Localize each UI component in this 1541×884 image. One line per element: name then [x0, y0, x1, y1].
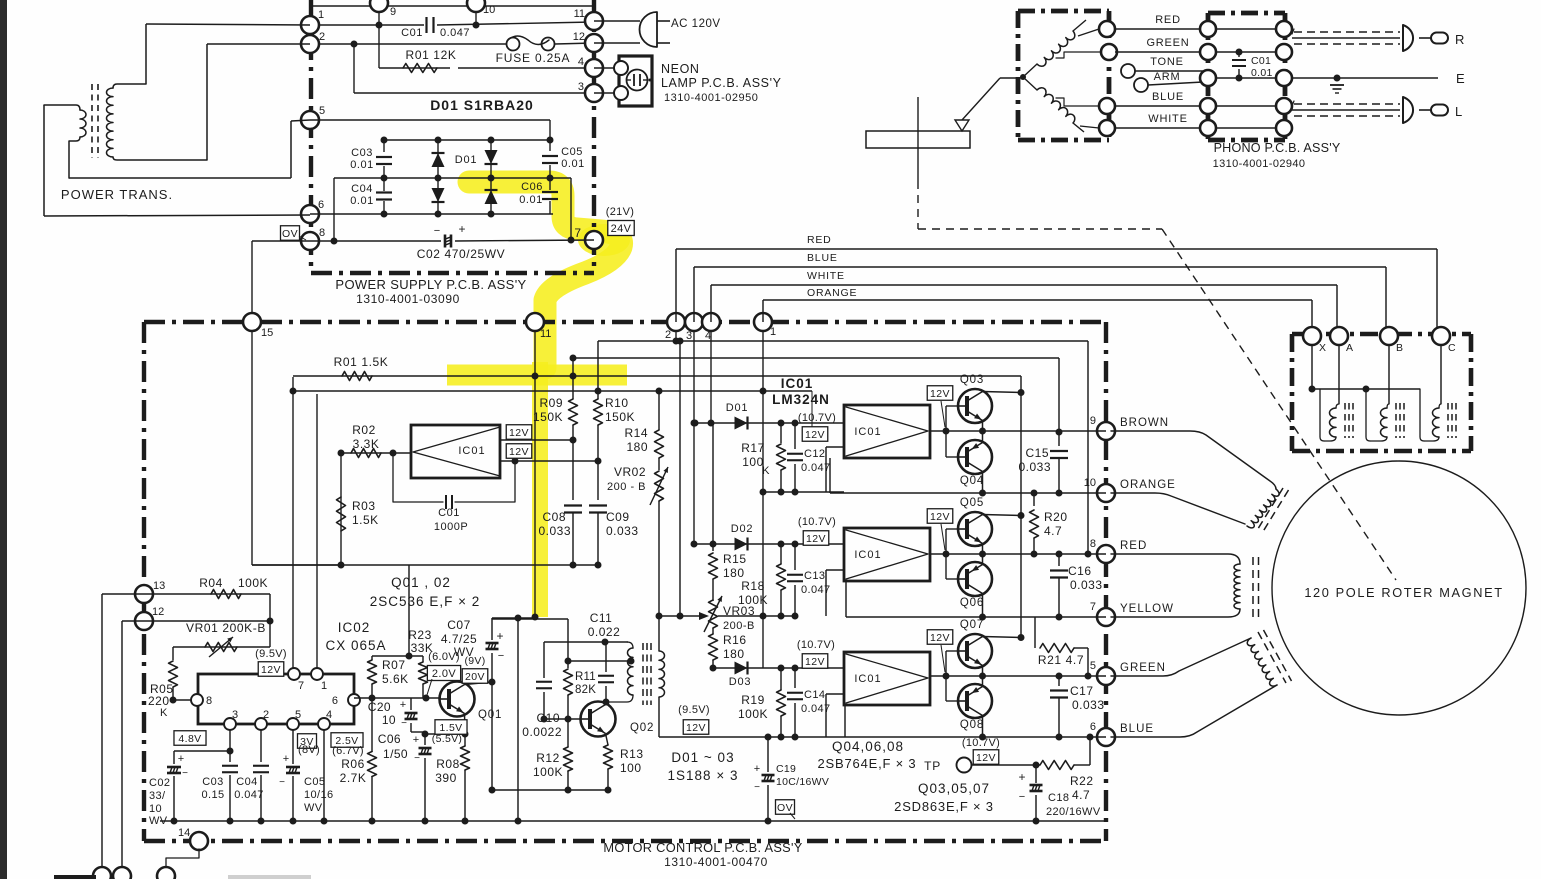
svg-text:0.15: 0.15: [201, 789, 224, 801]
svg-text:R21 4.7: R21 4.7: [1038, 653, 1084, 667]
svg-text:LAMP P.C.B. ASS'Y: LAMP P.C.B. ASS'Y: [661, 76, 782, 90]
svg-text:Q08: Q08: [960, 719, 984, 731]
svg-text:GREEN: GREEN: [1146, 37, 1189, 49]
svg-text:C16: C16: [1068, 564, 1092, 578]
svg-text:0.01: 0.01: [350, 195, 373, 207]
svg-text:82K: 82K: [575, 684, 596, 696]
svg-text:C19: C19: [776, 763, 796, 775]
svg-text:C15: C15: [1025, 446, 1049, 460]
svg-text:2SC536 E,F × 2: 2SC536 E,F × 2: [370, 594, 480, 609]
svg-text:POWER SUPPLY P.C.B. ASS'Y: POWER SUPPLY P.C.B. ASS'Y: [335, 277, 526, 292]
svg-text:−: −: [414, 753, 420, 764]
svg-text:9: 9: [1090, 415, 1096, 427]
svg-text:C05: C05: [561, 146, 583, 158]
svg-text:0.033: 0.033: [1070, 578, 1103, 592]
svg-text:0.01: 0.01: [519, 194, 542, 206]
svg-text:8: 8: [206, 695, 212, 707]
svg-text:4.7: 4.7: [1044, 524, 1062, 538]
svg-text:R10: R10: [605, 396, 629, 410]
svg-text:Q05: Q05: [960, 497, 984, 509]
svg-text:4.7: 4.7: [1072, 788, 1090, 802]
svg-text:14: 14: [178, 827, 190, 839]
svg-text:100K: 100K: [533, 765, 563, 779]
svg-text:−: −: [754, 782, 760, 793]
svg-text:0.01: 0.01: [561, 158, 584, 170]
svg-text:0.033: 0.033: [1018, 460, 1051, 474]
svg-text:4: 4: [578, 56, 584, 68]
svg-text:100: 100: [620, 761, 642, 775]
svg-text:R: R: [1455, 32, 1464, 47]
svg-text:IC01: IC01: [781, 376, 814, 391]
svg-text:−: −: [1019, 791, 1025, 803]
svg-text:13: 13: [153, 580, 165, 592]
svg-text:1310-4001-00470: 1310-4001-00470: [664, 855, 768, 869]
svg-text:2: 2: [263, 709, 269, 721]
svg-text:+: +: [283, 753, 289, 765]
svg-text:R20: R20: [1044, 510, 1068, 524]
svg-text:BROWN: BROWN: [1120, 417, 1169, 429]
svg-text:PHONO P.C.B. ASS'Y: PHONO P.C.B. ASS'Y: [1214, 141, 1341, 155]
svg-text:0.0022: 0.0022: [522, 725, 562, 739]
svg-text:C13: C13: [804, 570, 825, 582]
svg-text:8: 8: [1090, 538, 1096, 550]
svg-text:10: 10: [382, 713, 396, 727]
svg-text:R23: R23: [408, 628, 432, 642]
svg-text:1: 1: [318, 9, 324, 21]
svg-text:WV: WV: [149, 815, 168, 827]
svg-text:2SB764E,F × 3: 2SB764E,F × 3: [818, 756, 917, 771]
svg-text:D02: D02: [731, 523, 754, 535]
svg-text:ARM: ARM: [1154, 71, 1181, 83]
svg-text:C04: C04: [351, 183, 373, 195]
svg-text:R01 12K: R01 12K: [406, 48, 457, 62]
svg-text:−: −: [279, 777, 285, 788]
svg-text:1310-4001-02940: 1310-4001-02940: [1213, 158, 1306, 170]
svg-text:R12: R12: [536, 751, 560, 765]
svg-text:WHITE: WHITE: [807, 270, 845, 282]
svg-text:VR01 200K-B: VR01 200K-B: [186, 621, 266, 635]
svg-text:0.022: 0.022: [588, 625, 621, 639]
svg-text:VR02: VR02: [614, 465, 646, 479]
svg-text:12V: 12V: [686, 722, 706, 734]
svg-text:C20: C20: [368, 700, 391, 714]
svg-text:R06: R06: [341, 757, 365, 771]
svg-text:6: 6: [318, 199, 324, 211]
svg-text:Q01: Q01: [478, 709, 502, 721]
svg-text:10C/16WV: 10C/16WV: [776, 776, 829, 788]
svg-text:5.6K: 5.6K: [382, 672, 409, 686]
svg-text:0.033: 0.033: [538, 524, 571, 538]
svg-text:(10.7V): (10.7V): [798, 412, 836, 424]
svg-text:100K: 100K: [738, 707, 768, 721]
svg-text:ORANGE: ORANGE: [807, 287, 857, 299]
svg-text:C01: C01: [1251, 55, 1271, 67]
svg-text:180: 180: [626, 440, 648, 454]
svg-text:220: 220: [148, 694, 170, 708]
svg-text:R09: R09: [539, 396, 563, 410]
svg-text:200-B: 200-B: [723, 620, 755, 632]
svg-text:(6.7V): (6.7V): [332, 745, 364, 757]
svg-text:(5.5V): (5.5V): [432, 733, 462, 745]
svg-text:4: 4: [705, 330, 711, 342]
svg-text:12V: 12V: [261, 664, 281, 676]
svg-text:C08: C08: [542, 510, 566, 524]
svg-text:1310-4001-03090: 1310-4001-03090: [356, 292, 460, 306]
svg-text:RED: RED: [1120, 540, 1147, 552]
svg-text:R08: R08: [436, 757, 460, 771]
svg-text:12V: 12V: [805, 429, 825, 441]
svg-text:(9.5V): (9.5V): [678, 704, 710, 716]
svg-text:100: 100: [742, 455, 764, 469]
svg-text:12: 12: [573, 31, 585, 43]
svg-text:C14: C14: [804, 689, 825, 701]
svg-text:(10.7V): (10.7V): [798, 516, 836, 528]
svg-text:(10.7V): (10.7V): [962, 737, 1000, 749]
svg-text:RED: RED: [1155, 14, 1181, 26]
svg-text:C07: C07: [447, 618, 471, 632]
svg-text:0.01: 0.01: [1251, 67, 1273, 79]
svg-text:5: 5: [319, 105, 325, 117]
svg-text:C06: C06: [378, 732, 401, 746]
svg-text:11: 11: [540, 328, 551, 340]
svg-text:R14: R14: [624, 426, 648, 440]
svg-text:R18: R18: [741, 579, 765, 593]
svg-text:+: +: [496, 629, 503, 643]
svg-text:D01: D01: [455, 154, 478, 166]
svg-text:180: 180: [723, 566, 745, 580]
svg-text:1.5K: 1.5K: [352, 513, 379, 527]
svg-text:12V: 12V: [930, 632, 950, 644]
svg-text:R01 1.5K: R01 1.5K: [334, 355, 389, 369]
svg-text:C02 470/25WV: C02 470/25WV: [417, 247, 506, 261]
svg-text:1.5V: 1.5V: [439, 722, 462, 734]
svg-text:B: B: [1396, 342, 1403, 354]
svg-text:C04: C04: [236, 776, 257, 788]
svg-text:C11: C11: [590, 611, 613, 625]
svg-text:+: +: [458, 222, 465, 236]
svg-text:3: 3: [578, 81, 584, 93]
svg-text:2: 2: [665, 329, 671, 341]
svg-text:5: 5: [295, 709, 301, 721]
svg-text:R13: R13: [620, 747, 644, 761]
svg-text:12V: 12V: [805, 656, 825, 668]
svg-text:7: 7: [1090, 601, 1096, 613]
svg-text:YELLOW: YELLOW: [1120, 603, 1174, 615]
svg-text:150K: 150K: [605, 410, 635, 424]
svg-text:3: 3: [232, 709, 238, 721]
svg-text:OV: OV: [777, 802, 793, 814]
svg-text:2: 2: [319, 31, 325, 43]
svg-text:20V: 20V: [465, 671, 485, 683]
svg-text:R07: R07: [382, 658, 406, 672]
svg-text:TONE: TONE: [1150, 56, 1184, 68]
svg-text:WHITE: WHITE: [1148, 113, 1187, 125]
svg-text:5: 5: [1090, 660, 1096, 672]
svg-text:9: 9: [390, 6, 396, 18]
svg-text:12V: 12V: [930, 511, 950, 523]
svg-text:120 POLE ROTER MAGNET: 120 POLE ROTER MAGNET: [1304, 585, 1503, 600]
svg-text:7: 7: [574, 226, 581, 240]
svg-text:R22: R22: [1070, 774, 1094, 788]
svg-text:CX 065A: CX 065A: [325, 638, 386, 653]
svg-text:6: 6: [1090, 721, 1096, 733]
svg-text:180: 180: [723, 647, 745, 661]
svg-text:(9.5V): (9.5V): [255, 648, 287, 660]
svg-text:IC02: IC02: [338, 620, 371, 635]
svg-text:C18: C18: [1048, 792, 1069, 804]
svg-text:0.047: 0.047: [440, 27, 470, 39]
svg-text:12V: 12V: [806, 533, 826, 545]
svg-text:Q04: Q04: [960, 475, 984, 487]
svg-text:Q02: Q02: [630, 722, 654, 734]
svg-text:10: 10: [483, 4, 495, 16]
svg-text:4.7/25: 4.7/25: [441, 632, 477, 646]
svg-text:C10: C10: [536, 711, 560, 725]
svg-text:12: 12: [152, 606, 164, 618]
svg-text:24V: 24V: [611, 223, 632, 235]
svg-text:BLUE: BLUE: [807, 252, 838, 264]
svg-text:2.0V: 2.0V: [432, 668, 456, 680]
svg-text:390: 390: [435, 771, 457, 785]
svg-text:C02: C02: [149, 777, 170, 789]
svg-text:2SD863E,F × 3: 2SD863E,F × 3: [894, 799, 994, 814]
svg-text:A: A: [1346, 342, 1353, 354]
svg-text:RED: RED: [807, 234, 832, 246]
svg-text:10: 10: [149, 803, 162, 815]
svg-text:−: −: [401, 718, 407, 729]
svg-text:Q01 , 02: Q01 , 02: [391, 575, 451, 590]
svg-text:C12: C12: [804, 448, 825, 460]
svg-text:3.3K: 3.3K: [353, 437, 380, 451]
svg-text:C01: C01: [401, 27, 423, 39]
svg-text:Q07: Q07: [960, 619, 984, 631]
svg-text:K: K: [160, 707, 168, 719]
svg-text:L: L: [1455, 104, 1462, 119]
svg-text:X: X: [1319, 342, 1326, 354]
svg-text:−: −: [434, 225, 440, 237]
svg-text:D03: D03: [729, 676, 752, 688]
svg-text:4.8V: 4.8V: [178, 733, 201, 745]
svg-text:R11: R11: [575, 671, 596, 683]
svg-text:D01 ~ 03: D01 ~ 03: [671, 750, 734, 765]
svg-text:2.7K: 2.7K: [340, 771, 367, 785]
svg-text:C03: C03: [202, 776, 223, 788]
svg-text:12V: 12V: [509, 446, 529, 458]
svg-text:1/50: 1/50: [383, 747, 408, 761]
svg-text:(10.7V): (10.7V): [797, 639, 835, 651]
svg-text:1: 1: [321, 680, 327, 692]
svg-text:IC01: IC01: [854, 549, 881, 561]
svg-text:Q03: Q03: [960, 374, 984, 386]
svg-text:WV: WV: [304, 802, 323, 814]
svg-text:C06: C06: [521, 181, 543, 193]
svg-text:Q04,06,08: Q04,06,08: [832, 739, 904, 754]
svg-text:C09: C09: [606, 510, 630, 524]
svg-text:10: 10: [1084, 477, 1096, 489]
svg-text:150K: 150K: [533, 410, 563, 424]
svg-text:+: +: [754, 763, 760, 775]
svg-text:C05: C05: [304, 776, 325, 788]
svg-text:C17: C17: [1070, 684, 1094, 698]
svg-text:POWER TRANS.: POWER TRANS.: [61, 187, 173, 202]
svg-text:+: +: [400, 699, 406, 711]
svg-text:3: 3: [686, 330, 692, 342]
svg-text:R19: R19: [741, 693, 765, 707]
svg-text:R16: R16: [723, 633, 747, 647]
svg-text:11: 11: [574, 8, 585, 20]
svg-text:−: −: [498, 650, 504, 662]
svg-text:0.033: 0.033: [606, 524, 639, 538]
svg-text:Q06: Q06: [960, 597, 984, 609]
svg-text:15: 15: [261, 327, 273, 339]
svg-text:FUSE 0.25A: FUSE 0.25A: [496, 51, 571, 65]
svg-text:100K: 100K: [238, 576, 268, 590]
svg-text:R03: R03: [352, 499, 376, 513]
svg-text:K: K: [762, 465, 770, 477]
svg-text:10/16: 10/16: [304, 789, 334, 801]
svg-text:12V: 12V: [509, 427, 529, 439]
svg-text:0.033: 0.033: [1072, 698, 1105, 712]
svg-text:GREEN: GREEN: [1120, 662, 1166, 674]
svg-text:200 - B: 200 - B: [607, 481, 646, 493]
svg-text:1310-4001-02950: 1310-4001-02950: [664, 92, 758, 104]
svg-text:C03: C03: [351, 147, 373, 159]
svg-text:33/: 33/: [149, 790, 166, 802]
svg-text:8: 8: [319, 227, 325, 239]
svg-text:LM324N: LM324N: [772, 392, 830, 407]
svg-text:+: +: [413, 734, 419, 746]
svg-text:C: C: [1448, 342, 1456, 354]
svg-text:6: 6: [332, 695, 338, 707]
svg-text:R02: R02: [352, 423, 376, 437]
svg-text:1: 1: [770, 326, 776, 338]
svg-text:IC01: IC01: [854, 426, 881, 438]
svg-text:(21V): (21V): [606, 206, 634, 218]
svg-text:AC 120V: AC 120V: [671, 18, 721, 30]
svg-text:(8V): (8V): [298, 744, 320, 756]
svg-text:E: E: [1456, 71, 1465, 86]
svg-text:BLUE: BLUE: [1120, 723, 1154, 735]
svg-text:+: +: [1018, 770, 1025, 784]
svg-text:ORANGE: ORANGE: [1120, 479, 1176, 491]
svg-text:(9V): (9V): [464, 655, 485, 667]
svg-text:NEON: NEON: [661, 62, 700, 76]
svg-text:OV: OV: [282, 228, 298, 240]
svg-text:220/16WV: 220/16WV: [1046, 806, 1101, 818]
svg-text:D01 S1RBA20: D01 S1RBA20: [430, 97, 534, 113]
svg-text:0.047: 0.047: [234, 789, 264, 801]
svg-text:C01: C01: [438, 507, 460, 519]
svg-text:Q03,05,07: Q03,05,07: [918, 781, 990, 796]
svg-text:IC01: IC01: [854, 673, 881, 685]
svg-text:1000P: 1000P: [434, 521, 468, 533]
svg-text:4: 4: [326, 709, 332, 721]
svg-text:12V: 12V: [976, 752, 996, 764]
svg-text:MOTOR CONTROL P.C.B. ASS'Y: MOTOR CONTROL P.C.B. ASS'Y: [603, 840, 802, 855]
svg-text:+: +: [178, 753, 184, 765]
svg-text:7: 7: [298, 680, 304, 692]
svg-text:BLUE: BLUE: [1152, 91, 1184, 103]
svg-text:R04: R04: [199, 576, 223, 590]
svg-text:D01: D01: [726, 402, 749, 414]
svg-text:R15: R15: [723, 552, 747, 566]
svg-text:−: −: [182, 768, 188, 779]
svg-text:TP: TP: [924, 759, 941, 773]
svg-text:IC01: IC01: [458, 445, 485, 457]
svg-text:12V: 12V: [930, 388, 950, 400]
svg-text:R17: R17: [741, 441, 765, 455]
svg-text:1S188 × 3: 1S188 × 3: [668, 768, 739, 783]
svg-text:0.01: 0.01: [350, 159, 373, 171]
